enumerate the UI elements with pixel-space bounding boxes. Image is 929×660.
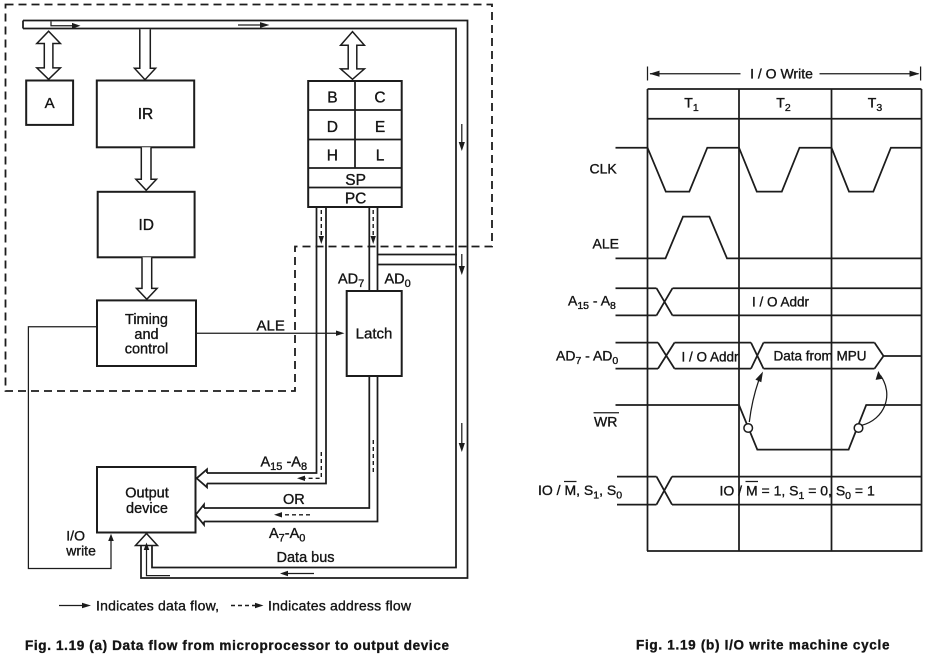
- svg-text:I/O: I/O: [66, 528, 85, 544]
- svg-text:Fig. 1.19 (b) I/O write machin: Fig. 1.19 (b) I/O write machine cycle: [636, 638, 890, 653]
- register A (accumulator box): [26, 81, 73, 125]
- svg-text:I / O Addr: I / O Addr: [681, 350, 739, 365]
- hollow arrowhead A15-A8 into output device: [197, 469, 207, 487]
- I/O Write span arrow lines: [650, 73, 919, 75]
- data flow arrow (top bus, middle): [238, 24, 261, 26]
- register IR (instruction register box): [97, 81, 194, 148]
- I/O Write span arrow ticks: [648, 67, 921, 81]
- output device box: [97, 467, 196, 533]
- svg-text:A15 -A8: A15 -A8: [261, 455, 308, 474]
- wire: A7-A0 bus from latch to output device (left/upper line): [204, 376, 369, 508]
- svg-text:L: L: [376, 148, 385, 165]
- hollow arrow bus to IR: [135, 29, 156, 79]
- wire: A7-A0 bus from latch to output device (right/lower line): [204, 376, 378, 522]
- hollow arrowhead data bus into output device (up): [136, 534, 158, 546]
- data flow arrow on data bus (left): [287, 573, 314, 575]
- svg-text:ALE: ALE: [593, 236, 619, 252]
- svg-text:D: D: [327, 119, 338, 136]
- A15-A8 bus waveform: [616, 288, 922, 315]
- wire: AD bus from PC to latch (right line): [377, 207, 379, 291]
- hollow bidirectional arrow bus to register array: [341, 32, 365, 80]
- svg-text:A: A: [45, 95, 55, 112]
- svg-text:Latch: Latch: [356, 326, 393, 343]
- wire: A15-A8 address bus (right line): [207, 207, 326, 484]
- wire: bus left end cap: [22, 21, 24, 29]
- svg-text:Data from MPU: Data from MPU: [773, 348, 866, 363]
- svg-text:PC: PC: [345, 191, 367, 208]
- legend: data flow arrow: [59, 605, 83, 607]
- svg-text:ID: ID: [138, 217, 154, 234]
- svg-text:WR: WR: [594, 414, 617, 430]
- circle on WR falling edge: [744, 424, 753, 433]
- ALE signal wire: [196, 332, 337, 334]
- wire: internal data bus (top, outer line + right bus outer + data bus lower): [23, 21, 468, 579]
- register array column divider: [354, 81, 356, 168]
- WR waveform: [616, 405, 922, 450]
- address flow dashed arrow (bottom of A15-A8 bus): [305, 452, 321, 478]
- MPU dashed boundary (microprocessor outline): [6, 5, 493, 392]
- block timing and control: [97, 300, 196, 366]
- ALE waveform: [616, 217, 922, 259]
- legend: address flow arrow: [231, 605, 255, 607]
- timing grid vertical lines: [648, 89, 922, 551]
- wire: AD bus from PC to latch (left line): [368, 207, 370, 291]
- svg-text:SP: SP: [345, 172, 366, 189]
- curved arrow WR fall to data valid: [749, 378, 760, 423]
- svg-text:Fig. 1.19 (a) Data flow from m: Fig. 1.19 (a) Data flow from microproces…: [25, 638, 449, 653]
- svg-text:Indicates data flow,: Indicates data flow,: [96, 598, 219, 614]
- svg-text:ALE: ALE: [257, 318, 285, 335]
- svg-text:IR: IR: [138, 106, 154, 123]
- address flow dashed arrow (AD bus): [372, 210, 374, 236]
- hollow arrowhead A7-A0 into output device: [196, 505, 204, 525]
- address flow dashed arrow (top of A15-A8 bus): [320, 210, 322, 236]
- wire: branch pair from AD bus to right bus: [378, 255, 458, 265]
- I/O write control wire: [28, 327, 111, 569]
- data flow arrow inside data bus (up): [147, 550, 171, 576]
- svg-text:Timing: Timing: [125, 312, 168, 328]
- hollow arrow ID to timing and control: [137, 257, 158, 299]
- address flow dashed arrow (A7-A0 bus): [282, 440, 373, 515]
- IO/M S1 S0 waveform: [617, 477, 922, 505]
- hollow arrow IR to ID: [136, 147, 157, 190]
- AD7-AD0 bus waveform: [616, 343, 922, 369]
- register array row lines: [308, 110, 402, 188]
- svg-text:Indicates address flow: Indicates address flow: [268, 598, 412, 614]
- wire: A15-A8 address bus (left line): [207, 207, 317, 473]
- svg-text:I / O Write: I / O Write: [750, 66, 813, 82]
- wire: internal data bus (top, inner line + right bus inner + data bus upper): [23, 29, 456, 568]
- svg-text:control: control: [125, 342, 169, 358]
- svg-text:E: E: [375, 119, 385, 136]
- hollow bidirectional arrow bus to accumulator A: [37, 31, 61, 79]
- svg-text:OR: OR: [283, 492, 305, 508]
- circle on WR rising edge: [854, 424, 863, 433]
- svg-text:CLK: CLK: [590, 161, 618, 177]
- curved arrow WR rise to data end: [861, 376, 887, 426]
- svg-text:I / O Addr: I / O Addr: [752, 295, 810, 310]
- timing grid horizontal lines: [647, 89, 923, 551]
- svg-text:B: B: [327, 90, 337, 107]
- data flow arrow on right bus (lower): [461, 423, 463, 443]
- svg-text:Output: Output: [125, 485, 169, 501]
- block ID (instruction decoder box): [98, 192, 195, 257]
- svg-text:C: C: [374, 90, 385, 107]
- register array outline: [308, 81, 402, 207]
- data flow arrow (hook, top-left of bus): [51, 22, 73, 26]
- svg-text:H: H: [327, 148, 338, 165]
- data flow arrow on right bus (middle): [461, 254, 463, 266]
- data flow arrow on right bus (upper): [461, 124, 463, 142]
- CLK waveform: [616, 148, 922, 192]
- svg-text:write: write: [65, 542, 96, 558]
- latch box: [347, 291, 402, 376]
- svg-text:Data bus: Data bus: [277, 550, 335, 566]
- svg-text:device: device: [126, 501, 168, 517]
